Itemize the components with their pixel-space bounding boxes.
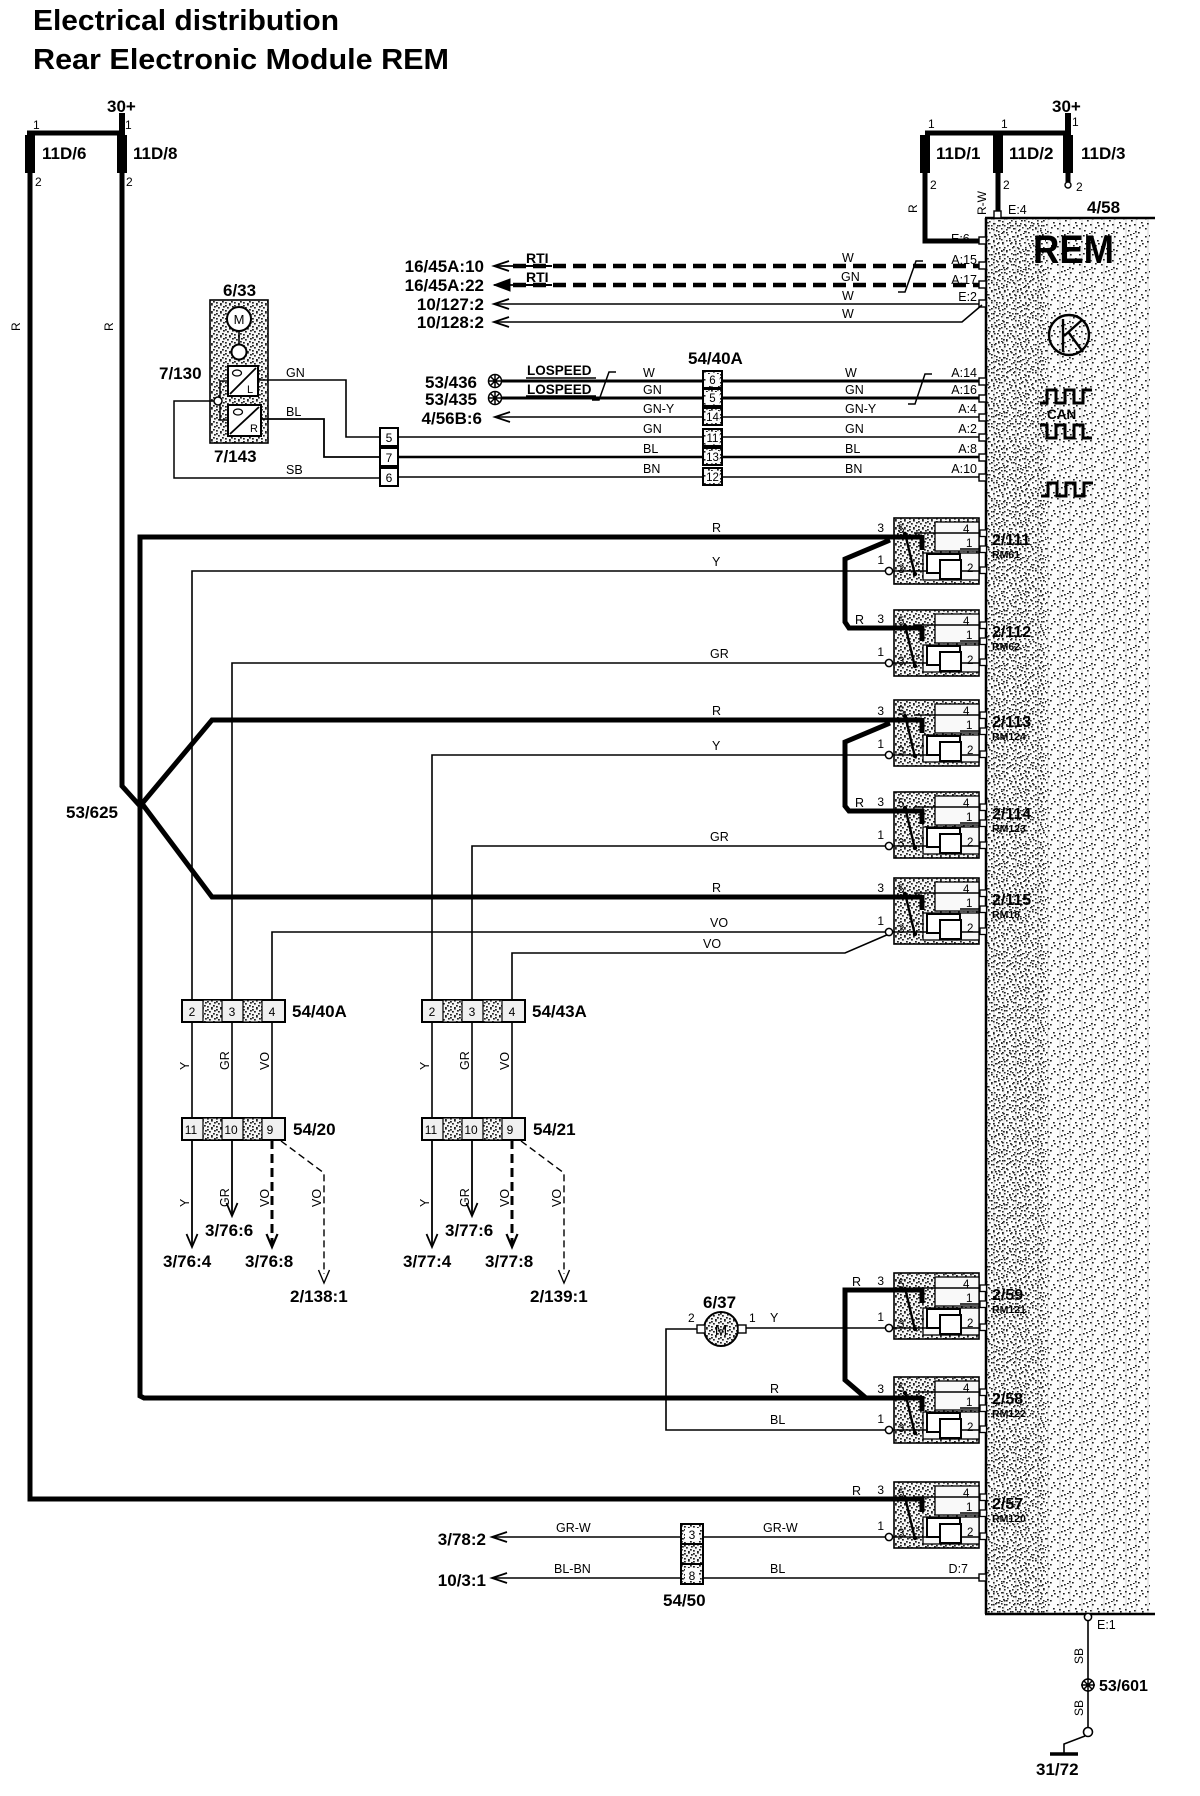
svg-text:REM: REM <box>1033 228 1114 272</box>
component 6/33 box <box>210 300 268 443</box>
svg-text:5: 5 <box>898 706 904 718</box>
wire 30+ feed 11D/8 down to splice 53/625 <box>122 173 140 806</box>
svg-text:R: R <box>102 322 116 331</box>
wire VO second to 2/115 and 54/43A <box>512 934 889 1000</box>
svg-text:BL: BL <box>845 442 860 456</box>
svg-text:2: 2 <box>967 1527 973 1539</box>
svg-text:6: 6 <box>709 375 715 387</box>
wire VO to 3/77:8 <box>511 1140 514 1246</box>
wire SB upper <box>1087 1621 1089 1679</box>
svg-text:4: 4 <box>963 884 970 896</box>
svg-text:5: 5 <box>709 393 715 405</box>
svg-text:2: 2 <box>429 1005 436 1019</box>
svg-text:11: 11 <box>707 433 719 445</box>
svg-text:10: 10 <box>464 1123 478 1137</box>
svg-text:3/76:4: 3/76:4 <box>163 1252 212 1271</box>
svg-text:2: 2 <box>1076 180 1083 194</box>
svg-text:10/127:2: 10/127:2 <box>417 295 484 314</box>
svg-text:5: 5 <box>898 616 904 628</box>
svg-text:GR: GR <box>458 1188 472 1207</box>
svg-text:2/112: 2/112 <box>992 624 1031 641</box>
svg-text:R: R <box>712 521 721 535</box>
svg-text:3: 3 <box>877 795 884 809</box>
svg-text:11D/1: 11D/1 <box>936 144 980 163</box>
svg-text:VO: VO <box>498 1052 512 1070</box>
svg-text:M: M <box>715 1322 728 1339</box>
svg-text:11: 11 <box>425 1123 438 1137</box>
CAN square wave lower <box>1040 425 1092 438</box>
connector 54/43A <box>422 1000 525 1022</box>
svg-text:RM124: RM124 <box>992 731 1026 743</box>
svg-text:GN: GN <box>286 366 305 380</box>
relay connector 2/111 RM61 <box>877 518 986 584</box>
wire Y to 3/77:4 <box>431 1140 433 1246</box>
svg-text:2: 2 <box>930 178 937 192</box>
svg-text:LOSPEED: LOSPEED <box>527 382 592 397</box>
svg-text:R: R <box>9 322 23 331</box>
svg-text:4: 4 <box>509 1005 516 1019</box>
terminal E:6 <box>979 237 986 244</box>
svg-text:5: 5 <box>898 884 904 896</box>
svg-text:BL: BL <box>770 1562 785 1576</box>
svg-text:1: 1 <box>877 1519 884 1533</box>
svg-text:GN: GN <box>643 383 662 397</box>
svg-text:3/77:8: 3/77:8 <box>485 1252 533 1271</box>
svg-text:3: 3 <box>877 881 884 895</box>
svg-text:3: 3 <box>469 1005 476 1019</box>
svg-text:GN: GN <box>841 270 860 284</box>
svg-text:16/45A:22: 16/45A:22 <box>405 276 484 295</box>
arrow left 10/128:2 <box>494 317 509 327</box>
svg-text:1: 1 <box>125 118 132 132</box>
wire GN dashed to A:17 <box>513 283 983 288</box>
svg-text:2/59: 2/59 <box>992 1287 1023 1304</box>
wire W to E:2 <box>494 303 983 305</box>
svg-text:SB: SB <box>1072 1648 1086 1664</box>
wire GR to 2/112 and 54/40A <box>232 663 889 1000</box>
svg-text:53/625: 53/625 <box>66 803 118 822</box>
svg-text:RM123: RM123 <box>992 823 1026 835</box>
REM pin labels A:14..A:10 <box>951 366 977 476</box>
rotated wire labels row2 right <box>418 1188 564 1207</box>
svg-text:6: 6 <box>386 471 393 485</box>
svg-text:12: 12 <box>706 472 719 484</box>
svg-text:GR-W: GR-W <box>556 1521 591 1535</box>
svg-text:A:8: A:8 <box>958 442 977 456</box>
wire BL from 6/33 <box>261 419 380 457</box>
svg-text:10/3:1: 10/3:1 <box>438 1571 486 1590</box>
svg-text:Y: Y <box>418 1061 432 1070</box>
wire SB lower <box>1087 1691 1089 1727</box>
svg-text:1: 1 <box>966 538 972 550</box>
connector 54/20 <box>182 1118 285 1140</box>
svg-text:2: 2 <box>189 1005 196 1019</box>
wire 30+ feed 11D/6 down-left and along bottom to 2/57 <box>30 173 896 1499</box>
clock icon <box>1049 315 1089 355</box>
svg-text:2/115: 2/115 <box>992 892 1031 909</box>
wire R branch 2/58 to 2/59 <box>845 1290 896 1398</box>
svg-text:A:2: A:2 <box>958 422 977 436</box>
svg-text:A:14: A:14 <box>951 366 977 380</box>
sensor box L (7/130) <box>228 366 258 396</box>
svg-text:4/56B:6: 4/56B:6 <box>422 409 482 428</box>
svg-text:1: 1 <box>966 1397 972 1409</box>
connector box 7 <box>380 448 398 466</box>
svg-text:11D/6: 11D/6 <box>42 144 86 163</box>
svg-text:E:4: E:4 <box>1008 203 1027 217</box>
svg-text:54/20: 54/20 <box>293 1120 336 1139</box>
wire Y to 2/111 and 54/40A <box>192 571 889 1000</box>
splice 53/601 <box>1081 1678 1095 1692</box>
svg-text:3: 3 <box>898 746 904 758</box>
svg-text:1: 1 <box>966 1502 972 1514</box>
svg-text:GR-W: GR-W <box>763 1521 798 1535</box>
fuse 11D/8 <box>117 135 127 173</box>
svg-text:4: 4 <box>963 706 970 718</box>
connector 54/21 <box>422 1118 525 1140</box>
twisted pair slash LOSPEED right <box>908 374 932 404</box>
svg-text:E:1: E:1 <box>1097 1618 1116 1632</box>
svg-text:RM61: RM61 <box>992 549 1020 561</box>
svg-text:GN: GN <box>845 422 864 436</box>
svg-text:3: 3 <box>898 924 904 936</box>
svg-text:3: 3 <box>898 838 904 850</box>
svg-text:2: 2 <box>688 1311 695 1325</box>
svg-text:2/139:1: 2/139:1 <box>530 1287 588 1306</box>
relay connector 2/113 RM124 <box>877 700 986 766</box>
svg-text:1: 1 <box>1001 117 1008 131</box>
svg-text:CAN: CAN <box>1047 407 1076 422</box>
svg-text:Y: Y <box>770 1311 779 1325</box>
svg-text:2: 2 <box>967 563 973 575</box>
wire BL-BN left <box>492 1577 681 1579</box>
relay connector 2/58 RM122 <box>877 1377 986 1443</box>
svg-text:RM122: RM122 <box>992 1408 1026 1420</box>
rotated wire labels row1 <box>178 1051 512 1070</box>
svg-text:2: 2 <box>35 175 42 189</box>
connector 54/40A (upper) <box>703 371 722 485</box>
svg-text:2/114: 2/114 <box>992 806 1031 823</box>
splice symbol 53/435 <box>488 391 502 405</box>
svg-text:Y: Y <box>178 1061 192 1070</box>
svg-text:54/40A: 54/40A <box>688 349 743 368</box>
feed stub right <box>1065 113 1071 136</box>
connector box 6 <box>380 468 398 486</box>
rotated wire labels row2 left <box>178 1188 324 1207</box>
svg-text:3: 3 <box>877 612 884 626</box>
svg-text:R: R <box>770 1382 779 1396</box>
svg-text:1: 1 <box>877 645 884 659</box>
svg-text:A:10: A:10 <box>951 462 977 476</box>
splice symbol 53/436 <box>488 374 502 388</box>
svg-text:W: W <box>842 289 854 303</box>
svg-text:A:16: A:16 <box>951 383 977 397</box>
svg-text:1: 1 <box>966 812 972 824</box>
fuse 11D/3 <box>1063 135 1073 173</box>
wire R main riser 53/625 to 2/111 and down to 2/58 <box>140 537 896 1398</box>
thermo circle (6/33) <box>232 345 247 360</box>
REM terminals A:14..A:10 <box>979 378 986 385</box>
svg-text:3/77:6: 3/77:6 <box>445 1221 493 1240</box>
svg-text:7: 7 <box>386 451 393 465</box>
svg-text:5: 5 <box>898 1488 904 1500</box>
svg-text:3: 3 <box>898 1319 904 1331</box>
svg-text:W: W <box>845 366 857 380</box>
ground terminal circle <box>1084 1728 1093 1737</box>
svg-text:1: 1 <box>966 630 972 642</box>
ground 31/72 <box>1050 1736 1085 1754</box>
svg-text:E:6: E:6 <box>951 232 970 246</box>
wire BN (from box 6) <box>398 476 983 478</box>
CAN square wave upper <box>1040 390 1092 403</box>
wires between 54/40A and 54/20 <box>192 1022 512 1118</box>
svg-text:R: R <box>250 423 258 435</box>
svg-text:GR: GR <box>218 1188 232 1207</box>
wire Y to 3/76:4 <box>191 1140 193 1246</box>
wire W LOSPEED <box>502 380 983 383</box>
svg-text:2/138:1: 2/138:1 <box>290 1287 348 1306</box>
svg-text:RTI: RTI <box>526 250 549 266</box>
sensor box R (7/143) <box>228 405 261 436</box>
REM module 4/58 box <box>985 218 1155 1614</box>
svg-text:3: 3 <box>898 656 904 668</box>
svg-text:M: M <box>234 312 245 327</box>
svg-text:5: 5 <box>386 431 393 445</box>
svg-text:3: 3 <box>898 1528 904 1540</box>
wire GR to 3/76:6 <box>231 1140 233 1214</box>
fuse 11D/6 <box>25 135 35 173</box>
svg-text:3: 3 <box>877 1274 884 1288</box>
fuse 11D/1 <box>920 135 930 173</box>
fuse 11D/2 <box>993 135 1003 173</box>
svg-text:54/43A: 54/43A <box>532 1002 587 1021</box>
svg-text:2: 2 <box>967 1318 973 1330</box>
svg-text:4: 4 <box>963 1279 970 1291</box>
svg-text:3: 3 <box>229 1005 236 1019</box>
svg-text:E:2: E:2 <box>958 290 977 304</box>
svg-text:Rear Electronic Module REM: Rear Electronic Module REM <box>33 44 449 76</box>
wire R branch 2/113 to 2/114 <box>845 723 896 811</box>
svg-text:4/58: 4/58 <box>1087 198 1120 217</box>
svg-text:A:15: A:15 <box>951 253 977 267</box>
svg-text:1: 1 <box>966 720 972 732</box>
svg-text:6/33: 6/33 <box>223 281 256 300</box>
wire BL right to REM D:7 <box>703 1577 983 1579</box>
svg-text:GR: GR <box>710 830 729 844</box>
wire R branch 2/111 to 2/112 <box>845 540 896 628</box>
svg-text:5: 5 <box>898 1279 904 1291</box>
svg-text:RM18: RM18 <box>992 909 1020 921</box>
stub 11D/3 <box>1066 173 1071 182</box>
svg-text:4: 4 <box>269 1005 276 1019</box>
svg-text:2: 2 <box>967 745 973 757</box>
svg-text:2: 2 <box>967 837 973 849</box>
svg-text:BL: BL <box>770 1413 785 1427</box>
svg-text:GR: GR <box>458 1051 472 1070</box>
wire 11D/2 to E:4 <box>996 173 1001 213</box>
svg-text:6/37: 6/37 <box>703 1293 736 1312</box>
svg-text:4: 4 <box>963 798 970 810</box>
svg-text:54/21: 54/21 <box>533 1120 576 1139</box>
svg-text:VO: VO <box>550 1189 564 1207</box>
svg-text:1: 1 <box>877 828 884 842</box>
wire R branch to 2/113 <box>140 720 896 806</box>
arrow left 4/56B:6 <box>495 412 510 422</box>
svg-text:3: 3 <box>877 1483 884 1497</box>
terminal E:1 <box>1084 1613 1091 1620</box>
svg-text:4: 4 <box>963 524 970 536</box>
svg-text:2: 2 <box>967 1422 973 1434</box>
relay connector 2/115 RM18 <box>877 878 986 944</box>
twisted pair slash LOSPEED left <box>592 372 616 400</box>
svg-text:31/72: 31/72 <box>1036 1760 1079 1779</box>
wire VO to 3/76:8 <box>271 1140 274 1246</box>
relay connector 2/114 RM123 <box>877 792 986 858</box>
svg-text:GN: GN <box>845 383 864 397</box>
svg-text:2: 2 <box>967 655 973 667</box>
svg-text:9: 9 <box>507 1123 514 1137</box>
svg-text:SB: SB <box>1072 1700 1086 1716</box>
svg-text:5: 5 <box>898 524 904 536</box>
svg-text:3: 3 <box>877 704 884 718</box>
svg-text:VO: VO <box>703 937 721 951</box>
twisted pair slash RTI <box>898 261 923 292</box>
wire W to E:2 (second) <box>494 305 982 322</box>
svg-text:3: 3 <box>898 1423 904 1435</box>
arrow left 16/45A:22 <box>494 279 510 291</box>
svg-text:2/57: 2/57 <box>992 1496 1023 1513</box>
svg-text:9: 9 <box>267 1123 274 1137</box>
svg-text:10: 10 <box>224 1123 238 1137</box>
svg-text:BL: BL <box>643 442 658 456</box>
wire GN LOSPEED <box>502 397 983 400</box>
svg-text:R: R <box>855 796 864 810</box>
wire GR to 3/77:6 <box>471 1140 473 1214</box>
svg-text:VO: VO <box>258 1189 272 1207</box>
svg-text:R: R <box>852 1484 861 1498</box>
svg-text:4: 4 <box>963 616 970 628</box>
connector 54/40A <box>182 1000 285 1022</box>
svg-text:R: R <box>852 1275 861 1289</box>
wire R branch to 2/115 <box>140 801 896 897</box>
svg-text:LOSPEED: LOSPEED <box>527 363 592 378</box>
node SB terminal <box>214 397 222 405</box>
svg-text:53/601: 53/601 <box>1099 1678 1148 1695</box>
svg-text:2: 2 <box>126 175 133 189</box>
svg-text:BL-BN: BL-BN <box>554 1562 591 1576</box>
svg-text:D:7: D:7 <box>949 1562 969 1576</box>
wire Y motor to 2/59 <box>746 1327 886 1329</box>
svg-text:3/77:4: 3/77:4 <box>403 1252 452 1271</box>
svg-text:1: 1 <box>877 914 884 928</box>
svg-text:3: 3 <box>877 521 884 535</box>
svg-text:GR: GR <box>218 1051 232 1070</box>
wire GN from 6/33 <box>258 380 380 437</box>
svg-text:3/78:2: 3/78:2 <box>438 1530 486 1549</box>
arrow left 10/127:2 <box>494 299 509 309</box>
wire Y to 2/113 and 54/43A <box>432 755 889 1000</box>
svg-text:3/76:6: 3/76:6 <box>205 1221 253 1240</box>
svg-text:R: R <box>712 704 721 718</box>
svg-text:Y: Y <box>418 1198 432 1207</box>
svg-text:A:4: A:4 <box>958 402 977 416</box>
svg-text:A:17: A:17 <box>951 273 977 287</box>
svg-text:7/130: 7/130 <box>159 364 202 383</box>
motor 6/37 <box>697 1312 746 1346</box>
svg-text:1: 1 <box>1072 115 1079 129</box>
wire BL (from box 7) <box>398 456 983 459</box>
svg-text:2: 2 <box>967 923 973 935</box>
svg-text:11D/2: 11D/2 <box>1009 144 1053 163</box>
internal bracket 6/33 <box>220 381 228 420</box>
svg-text:2/113: 2/113 <box>992 714 1031 731</box>
svg-text:GN: GN <box>643 422 662 436</box>
svg-text:1: 1 <box>966 1293 972 1305</box>
wire labels R Y GR column <box>703 521 729 951</box>
svg-text:4: 4 <box>963 1383 970 1395</box>
svg-text:54/50: 54/50 <box>663 1591 706 1610</box>
svg-text:W: W <box>842 251 854 265</box>
svg-text:5: 5 <box>898 798 904 810</box>
svg-text:VO: VO <box>498 1189 512 1207</box>
svg-text:R: R <box>712 881 721 895</box>
wire 30+ bus left <box>27 131 122 136</box>
svg-text:VO: VO <box>710 916 728 930</box>
svg-text:1: 1 <box>877 737 884 751</box>
svg-text:7/143: 7/143 <box>214 447 257 466</box>
svg-text:BL: BL <box>286 405 301 419</box>
wire 11D/1 to E:6 <box>925 173 979 241</box>
wire GR-W right to 2/57 <box>703 1536 886 1538</box>
svg-text:SB: SB <box>286 463 303 477</box>
svg-text:RM62: RM62 <box>992 641 1020 653</box>
svg-text:VO: VO <box>310 1189 324 1207</box>
svg-text:3: 3 <box>689 1528 696 1542</box>
square wave lower extra <box>1041 483 1093 496</box>
wire VO to 2/115 and 54/40A <box>272 932 889 1000</box>
relay connector 2/57 RM120 <box>877 1482 986 1548</box>
wire colour labels right of 54/40A <box>845 366 877 476</box>
svg-text:11D/3: 11D/3 <box>1081 144 1125 163</box>
svg-text:2/58: 2/58 <box>992 1391 1023 1408</box>
svg-text:GN-Y: GN-Y <box>643 402 675 416</box>
wire SB from 6/33 <box>174 401 380 478</box>
svg-text:BN: BN <box>845 462 862 476</box>
svg-text:BN: BN <box>643 462 660 476</box>
svg-text:16/45A:10: 16/45A:10 <box>405 257 484 276</box>
svg-text:1: 1 <box>928 117 935 131</box>
svg-text:3/76:8: 3/76:8 <box>245 1252 293 1271</box>
svg-text:GN-Y: GN-Y <box>845 402 877 416</box>
svg-text:R-W: R-W <box>975 190 989 215</box>
svg-text:2/111: 2/111 <box>992 532 1030 549</box>
wire GN (from box 5) <box>398 436 983 438</box>
svg-text:1: 1 <box>877 1412 884 1426</box>
wire 30+ bus right <box>925 131 1068 136</box>
wire GR-W left <box>492 1536 681 1538</box>
svg-text:R: R <box>855 613 864 627</box>
feed stub left <box>119 113 125 136</box>
motor M circle (6/33) <box>227 307 251 331</box>
svg-text:W: W <box>842 307 854 321</box>
svg-text:4: 4 <box>963 1488 970 1500</box>
svg-text:L: L <box>247 384 253 396</box>
svg-text:R: R <box>906 204 920 213</box>
svg-text:W: W <box>643 366 655 380</box>
svg-text:Y: Y <box>712 739 721 753</box>
wire GN-Y <box>495 416 983 418</box>
svg-text:RM121: RM121 <box>992 1304 1026 1316</box>
